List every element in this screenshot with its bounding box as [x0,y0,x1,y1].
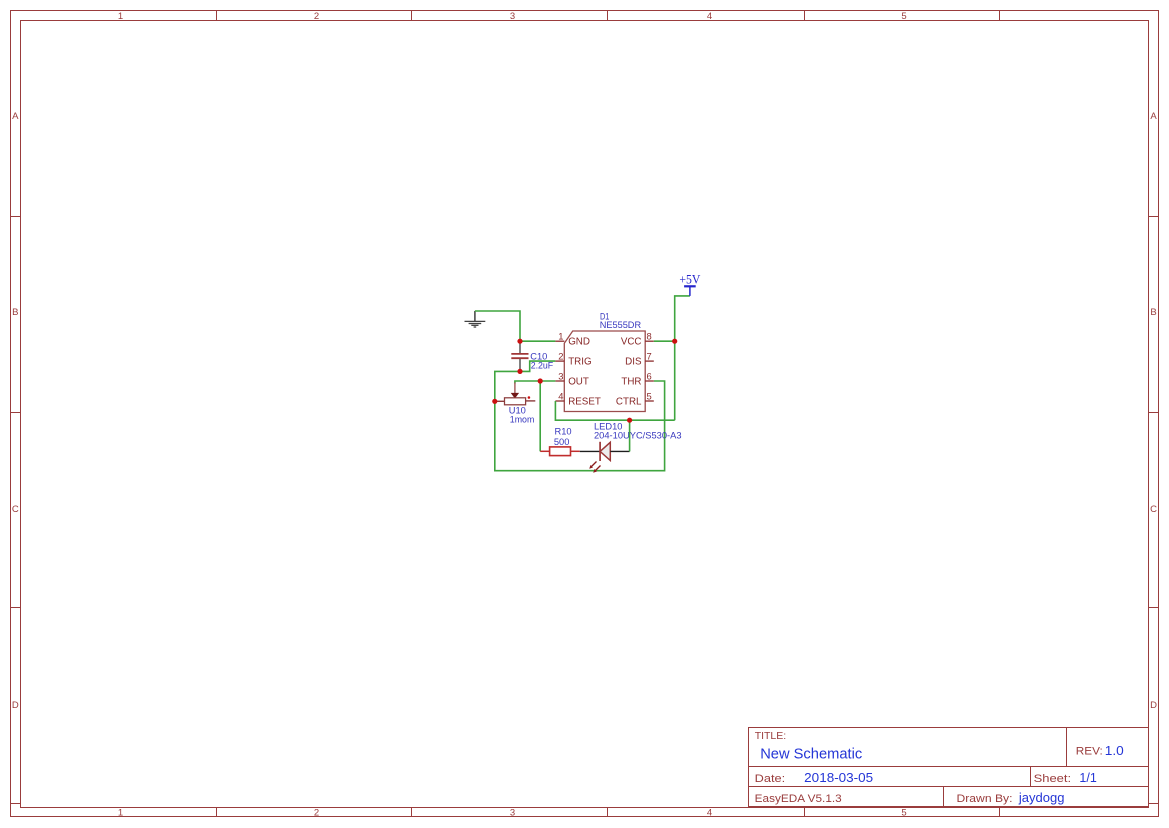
svg-text:5: 5 [901,11,906,22]
svg-text:6: 6 [647,370,652,381]
svg-text:B: B [1150,307,1156,318]
svg-text:5: 5 [647,390,652,401]
ground [465,311,486,327]
svg-text:CTRL: CTRL [616,397,642,408]
svg-text:TITLE:: TITLE: [755,730,787,742]
resistor R10 [540,447,580,456]
svg-text:New Schematic: New Schematic [760,745,862,762]
pin 2 TRIG [555,351,591,368]
wire ground to GND junction [475,311,520,341]
wire pin4 RESET to +5V rail [555,401,674,420]
svg-text:RESET: RESET [568,397,601,408]
svg-text:C: C [12,504,19,515]
svg-text:4: 4 [558,390,563,401]
svg-text:4: 4 [707,808,712,819]
svg-text:7: 7 [647,351,652,362]
svg-text:3: 3 [558,370,563,381]
wire pin3 OUT to pot wiper [515,381,556,384]
svg-text:DIS: DIS [625,357,642,368]
wire LED cathode up to junction [629,420,631,451]
svg-text:C: C [1150,504,1157,515]
svg-text:+5V: +5V [679,272,701,287]
pin 5 CTRL [616,390,654,407]
node U10 left junction [492,399,497,404]
svg-text:D: D [1150,700,1157,711]
svg-text:Sheet:: Sheet: [1034,773,1072,785]
wire pin8 VCC stub [654,340,675,342]
svg-text:2: 2 [314,11,319,22]
LED LED10 [580,442,630,473]
wire C10 bottom loop to pin6 THR [495,371,665,470]
svg-text:Drawn By:: Drawn By: [957,793,1013,805]
svg-text:D: D [12,700,19,711]
pin 8 VCC [621,331,654,348]
svg-text:THR: THR [621,377,641,388]
node VCC junction [672,339,677,344]
svg-text:1mom: 1mom [510,414,535,424]
svg-text:TRIG: TRIG [568,357,591,368]
svg-text:NE555DR: NE555DR [600,320,642,330]
svg-text:1.0: 1.0 [1105,744,1124,758]
pin 4 RESET [555,390,600,407]
svg-text:EasyEDA V5.1.3: EasyEDA V5.1.3 [755,793,842,805]
title block [749,728,1149,807]
pin 7 DIS [625,351,654,368]
svg-text:A: A [12,111,19,122]
svg-text:1: 1 [118,11,123,22]
IC D1 NE555DR body [564,331,645,412]
svg-text:OUT: OUT [568,377,589,388]
svg-text:R10: R10 [555,427,572,437]
pin 3 OUT [555,370,588,387]
svg-text:3: 3 [510,11,515,22]
capacitor C10 [511,342,528,371]
svg-text:1: 1 [118,808,123,819]
svg-text:1: 1 [558,331,563,342]
svg-text:4: 4 [707,11,712,22]
svg-text:3: 3 [510,808,515,819]
node C10 bottom junction [517,369,522,374]
svg-text:1/1: 1/1 [1079,771,1096,785]
svg-text:Date:: Date: [755,773,786,785]
power flag +5V [679,272,701,296]
svg-text:A: A [1150,111,1157,122]
svg-text:VCC: VCC [621,337,642,348]
svg-text:REV:: REV: [1076,746,1103,758]
potentiometer U10 [496,383,536,405]
svg-text:2: 2 [558,351,563,362]
svg-text:jaydogg: jaydogg [1018,790,1065,805]
wire junction to pin1 GND [520,340,555,342]
svg-text:B: B [12,307,18,318]
svg-text:2: 2 [314,808,319,819]
pin 6 THR [621,370,653,387]
node OUT junction [538,378,543,383]
svg-text:2018-03-05: 2018-03-05 [804,771,873,785]
pin 1 GND [555,331,590,348]
svg-text:GND: GND [568,337,590,348]
wire C10 to pin2 TRIG [520,361,555,371]
svg-text:204-10UYC/S530-A3: 204-10UYC/S530-A3 [594,430,682,440]
node LED junction [627,418,632,423]
svg-text:500: 500 [554,437,570,447]
node GND junction [517,339,522,344]
wire +5V vertical rail [675,296,690,420]
svg-text:5: 5 [901,808,906,819]
svg-text:2.2uF: 2.2uF [531,361,554,371]
svg-text:8: 8 [647,331,652,342]
wire OUT junction down to R10 [539,381,541,451]
title block texts [755,730,1103,805]
